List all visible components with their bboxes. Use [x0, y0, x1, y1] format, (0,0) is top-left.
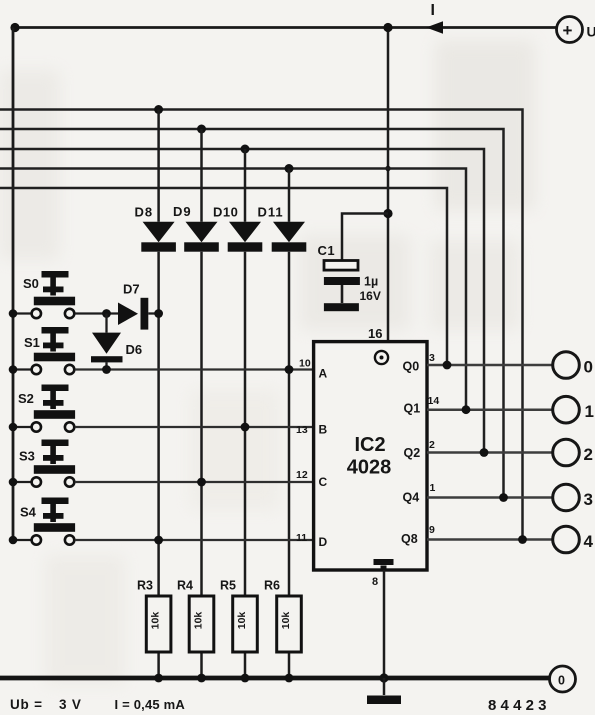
svg-text:S3: S3	[19, 449, 35, 464]
svg-text:8: 8	[372, 576, 378, 588]
svg-text:10k: 10k	[280, 612, 292, 630]
svg-text:D9: D9	[173, 204, 192, 219]
svg-text:1: 1	[585, 402, 594, 421]
svg-text:11: 11	[296, 532, 307, 544]
terminal +Ub	[557, 17, 583, 43]
wire column 2 upper (bus2 to D9)	[200, 129, 203, 222]
diode D6	[91, 314, 123, 370]
svg-text:3: 3	[429, 352, 435, 364]
node left rail S2 junction	[9, 423, 18, 432]
node bus3/D10 column junction	[241, 145, 250, 154]
diode D7	[118, 298, 159, 330]
svg-text:Q0: Q0	[403, 360, 420, 374]
terminal output 1	[553, 396, 580, 423]
pushbutton S4	[13, 498, 75, 545]
wire column 1 lower (D8 to R3 and bottom rail)	[157, 252, 160, 678]
pushbutton S0	[13, 271, 75, 318]
wire S2 row to IC input B	[75, 426, 314, 428]
svg-text:D11: D11	[258, 205, 284, 220]
resistor R5 10k	[233, 596, 258, 652]
svg-text:10k: 10k	[236, 612, 248, 630]
node left rail S4 junction	[9, 536, 18, 545]
svg-text:D8: D8	[135, 205, 154, 220]
svg-text:R6: R6	[264, 579, 280, 593]
wire output Q0 row	[427, 364, 553, 367]
svg-text:16: 16	[368, 326, 382, 341]
svg-text:C1: C1	[318, 243, 336, 258]
svg-text:D: D	[319, 535, 328, 549]
node pin8 bottom rail junction	[379, 673, 388, 682]
diode D9	[184, 222, 219, 252]
wire bus line 5 (to Q0 output row)	[0, 188, 447, 365]
wire S0 row to D7/D6	[75, 312, 118, 314]
svg-text:16V: 16V	[360, 289, 381, 303]
node top-left junction	[10, 23, 19, 32]
wire output Q4 row	[427, 496, 553, 499]
wire output Q1 row	[427, 408, 553, 411]
wire S3 row to IC input C	[75, 481, 314, 483]
svg-text:Q8: Q8	[401, 532, 418, 546]
svg-text:0: 0	[558, 674, 565, 688]
svg-text:Q1: Q1	[404, 402, 421, 416]
wire bus line 2 (to Q4 output row)	[0, 129, 504, 498]
wire IC pin8 to ground rail	[383, 570, 386, 678]
svg-text:I: I	[431, 2, 435, 19]
svg-text:4028: 4028	[347, 457, 392, 479]
svg-text:A: A	[319, 367, 328, 381]
pin 16 marker circle	[375, 351, 388, 364]
node bus4/D11 column junction	[285, 164, 294, 173]
node S0 row / D6 junction	[102, 309, 111, 318]
svg-text:R4: R4	[177, 579, 193, 593]
svg-text:D10: D10	[213, 205, 238, 220]
svg-text:S1: S1	[24, 335, 40, 350]
node R5 bottom rail junction	[241, 674, 250, 683]
svg-text:3: 3	[584, 490, 593, 509]
pushbutton S1	[13, 327, 75, 374]
node Q8/bus1 junction	[518, 535, 527, 544]
svg-text:0: 0	[584, 358, 593, 377]
ground below C1	[324, 303, 359, 311]
ground symbol at bottom rail	[367, 678, 401, 704]
diode D11	[272, 222, 307, 252]
svg-text:Q2: Q2	[404, 446, 421, 460]
wire bus line 3 (to Q2 output row)	[0, 149, 484, 453]
wire bottom 0V rail	[0, 676, 550, 681]
node Q4/bus2 junction	[499, 493, 508, 502]
svg-text:3 V: 3 V	[59, 697, 82, 712]
node column1 / S4 row junction	[154, 536, 163, 545]
node small junction on bus line 4	[385, 166, 390, 171]
wire column 3 lower (D10 to R5 and bottom rail)	[244, 252, 247, 678]
node D7 cathode / column1 junction	[154, 309, 163, 318]
terminal output 4	[553, 526, 580, 553]
pushbutton S3	[13, 440, 75, 487]
resistor R3 10k	[146, 596, 171, 652]
svg-text:13: 13	[296, 424, 308, 436]
node R4 bottom rail junction	[197, 674, 206, 683]
wire bus line 4 (to Q1 output row)	[0, 169, 466, 410]
wire column 4 upper (bus4 to D11)	[288, 169, 291, 222]
node R6 bottom rail junction	[285, 674, 294, 683]
node bus2/D9 column junction	[197, 125, 206, 134]
svg-text:1µ: 1µ	[364, 275, 378, 289]
svg-text:S4: S4	[20, 505, 37, 520]
svg-text:10k: 10k	[193, 612, 205, 630]
wire output Q8 row	[427, 538, 553, 541]
svg-text:Ub =: Ub =	[10, 697, 43, 712]
node left rail S0 junction	[9, 309, 18, 318]
wire left supply rail vertical	[12, 28, 15, 541]
wire bus line 1 (to Q8 output row)	[0, 110, 523, 540]
svg-text:Q4: Q4	[403, 491, 420, 505]
svg-text:I = 0,45 mA: I = 0,45 mA	[115, 697, 186, 712]
svg-text:D6: D6	[126, 342, 143, 357]
diode D10	[228, 222, 263, 252]
svg-text:9: 9	[429, 524, 435, 536]
terminal output 3	[553, 484, 580, 511]
pushbutton S2	[13, 385, 75, 432]
node Q0/bus5 junction	[443, 361, 452, 370]
resistor R6 10k	[277, 596, 302, 652]
svg-text:2: 2	[429, 439, 435, 451]
svg-text:B: B	[319, 423, 328, 437]
wire column 3 upper (bus3 to D10)	[244, 149, 247, 222]
capacitor C1	[324, 214, 388, 304]
op IC2 4028 box	[314, 342, 427, 570]
wire column 2 lower (D9 to R4 and bottom rail)	[200, 252, 203, 678]
svg-text:R3: R3	[137, 579, 153, 593]
wire S4 row to IC input D	[75, 539, 314, 541]
terminal output 0	[553, 352, 580, 379]
node column3 / S2 row junction	[241, 423, 250, 432]
svg-text:2: 2	[584, 445, 593, 464]
svg-text:10: 10	[299, 358, 311, 370]
diode D8	[141, 222, 176, 252]
svg-text:14: 14	[428, 395, 440, 407]
node Q2/bus3 junction	[480, 448, 489, 457]
wire S1 row to IC input A	[75, 368, 314, 370]
node junction top rail / pin16 drop	[383, 23, 392, 32]
node R3 bottom rail junction	[154, 674, 163, 683]
node bus1/D8 column junction	[154, 105, 163, 114]
node column4 / S1 row junction	[285, 365, 294, 374]
wire top supply rail	[15, 26, 557, 29]
svg-text:R5: R5	[220, 579, 236, 593]
node left rail S1 junction	[9, 365, 18, 374]
svg-text:IC2: IC2	[354, 434, 385, 456]
svg-text:S2: S2	[18, 391, 34, 406]
wire column 4 lower (D11 to R6 and bottom rail)	[288, 252, 291, 678]
svg-text:12: 12	[296, 469, 308, 481]
wire output Q2 row	[427, 451, 553, 454]
current arrow I on supply rail	[426, 21, 443, 33]
svg-text:4: 4	[584, 532, 594, 551]
node column2 / S3 row junction	[197, 478, 206, 487]
svg-text:C: C	[319, 475, 328, 489]
svg-text:U: U	[587, 24, 595, 40]
svg-text:10k: 10k	[150, 612, 162, 630]
terminal 0V	[550, 666, 576, 692]
wire +Ub vertical to IC pin16	[387, 28, 390, 342]
node Q1/bus4 junction	[462, 405, 471, 414]
node D6 cathode / S1 row junction	[102, 365, 111, 374]
svg-text:84423: 84423	[488, 697, 551, 714]
svg-text:+: +	[563, 21, 573, 40]
node junction C1 tap	[383, 209, 392, 218]
svg-text:S0: S0	[23, 276, 39, 291]
svg-text:1: 1	[430, 482, 436, 494]
svg-text:D7: D7	[123, 282, 140, 297]
wire column 1 upper (bus1 to D8)	[157, 110, 160, 222]
node left rail S3 junction	[9, 478, 18, 487]
IC internal VSS bar (pin 8)	[374, 562, 394, 570]
terminal output 2	[553, 439, 580, 466]
resistor R4 10k	[189, 596, 214, 652]
